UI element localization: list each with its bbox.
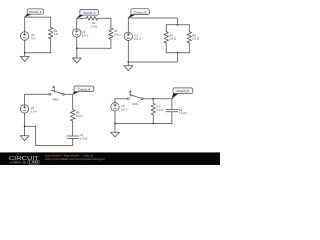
capacitor C2	[166, 109, 178, 111]
wire circuit3 top rail	[166, 24, 189, 26]
node circuit3 ground junction	[127, 61, 129, 63]
svg-text:http://circuitlab.com/cmshqk2m: http://circuitlab.com/cmshqk2m2egca	[45, 157, 105, 161]
svg-text:3.0 Ω: 3.0 Ω	[114, 33, 121, 37]
wire circuit3 bottom	[128, 61, 177, 63]
wire circuit3 left upper	[127, 18, 129, 32]
wire circuit3 top	[128, 17, 177, 19]
label bubble Circuit_3	[128, 9, 149, 18]
svg-text:Circuit_1: Circuit_1	[29, 10, 41, 14]
node circuit5 R7 bottom junction	[152, 123, 154, 125]
wire circuit3 output down	[177, 53, 179, 62]
wire circuit5 cap down lower	[171, 112, 173, 124]
svg-text:5 V: 5 V	[31, 37, 35, 41]
wire circuit2 right upper	[110, 18, 112, 28]
svg-text:1.0 µF: 1.0 µF	[80, 137, 88, 141]
node circuit4 ground junction	[24, 125, 26, 127]
svg-text:5.0 V: 5.0 V	[31, 110, 38, 114]
svg-text:Circuit_3: Circuit_3	[134, 10, 146, 14]
node circuit3 output junction	[177, 52, 179, 54]
svg-text:5.0 V: 5.0 V	[121, 107, 128, 111]
wire circuit3 R5 upper stub	[188, 25, 190, 32]
wire circuit1 left lower	[24, 40, 26, 53]
voltage source V4	[20, 105, 28, 113]
wire circuit4 right lower	[72, 139, 74, 146]
resistor R4	[164, 32, 168, 44]
ground circuit3	[124, 62, 133, 71]
wire circuit4 left lower	[24, 113, 26, 126]
resistor R2	[86, 16, 98, 20]
wire circuit3 R4 lower stub	[165, 43, 167, 53]
wire circuit4 bottom left vertical	[35, 126, 37, 145]
svg-text:SW1: SW1	[53, 98, 59, 102]
wire circuit3 R5 lower stub	[188, 43, 190, 53]
footer bar	[0, 152, 220, 165]
svg-text:2.0 Ω: 2.0 Ω	[90, 25, 97, 29]
wire circuit5 left lower	[114, 111, 116, 124]
wire circuit3 feed down	[177, 18, 179, 25]
svg-text:1.0 µF: 1.0 µF	[179, 111, 187, 115]
wire circuit2 left upper	[76, 18, 78, 28]
resistor R6	[70, 110, 74, 122]
node circuit5 R7 top junction	[152, 98, 154, 100]
wire circuit1 right upper	[50, 17, 52, 27]
resistor R3	[109, 28, 113, 40]
svg-text:SW2: SW2	[132, 102, 138, 106]
wire circuit1 top	[25, 16, 51, 18]
ground circuit4	[20, 126, 29, 141]
voltage source V2	[73, 29, 81, 37]
wire circuit4 bottom	[36, 145, 73, 147]
wire circuit5 bottom	[115, 123, 172, 125]
wire circuit5 cap down upper	[171, 99, 173, 110]
wire circuit2 top right	[98, 17, 111, 19]
wire circuit2 top left	[77, 17, 86, 19]
svg-text:1 Ω: 1 Ω	[54, 32, 58, 36]
node circuit2 ground junction	[76, 47, 78, 49]
wire circuit4 right upper	[72, 94, 74, 109]
svg-text:Circuit_4: Circuit_4	[78, 87, 90, 91]
svg-text:5.0 V: 5.0 V	[82, 33, 89, 37]
wire circuit2 right lower	[110, 39, 112, 48]
wire circuit5 top mid	[143, 98, 172, 100]
svg-text:2.0 Ω: 2.0 Ω	[169, 37, 176, 41]
resistor R7	[151, 103, 155, 115]
wire circuit5 left upper	[114, 99, 116, 103]
svg-text:LAB: LAB	[29, 161, 40, 165]
wire circuit5 R7 upper stub	[152, 99, 154, 104]
label bubble Circuit_1	[24, 9, 43, 17]
node circuit1 ground junction	[24, 52, 26, 54]
resistor R5	[187, 32, 191, 44]
svg-text:5.0 Ω: 5.0 Ω	[76, 114, 83, 118]
wire circuit4 top left	[25, 93, 50, 95]
wire circuit1 right lower	[50, 39, 52, 53]
node circuit3 feed junction	[177, 24, 179, 26]
svg-text:2.0 Ω: 2.0 Ω	[192, 37, 199, 41]
capacitor C1	[67, 136, 79, 139]
node circuit5 ground junction	[114, 123, 116, 125]
wire circuit3 R4 upper stub	[165, 25, 167, 32]
wire circuit1 left upper	[24, 17, 26, 32]
switch SW2	[127, 91, 143, 100]
voltage source V5	[111, 103, 119, 111]
wire circuit5 top left	[115, 98, 127, 100]
wire circuit1 bottom	[25, 52, 51, 54]
ground circuit1	[20, 53, 29, 62]
svg-text:5.0 Ω: 5.0 Ω	[156, 108, 163, 112]
wire circuit4 right mid	[72, 121, 74, 136]
label bubble Circuit_4	[73, 86, 94, 95]
wire circuit4 top right	[64, 93, 73, 95]
svg-text:Circuit_2: Circuit_2	[83, 11, 95, 15]
wire circuit4 bottom left horizontal	[25, 125, 36, 127]
svg-text:5.0 V: 5.0 V	[134, 37, 141, 41]
wire circuit2 left lower	[76, 37, 78, 48]
voltage source V3	[124, 32, 132, 40]
wire circuit5 R7 lower stub	[152, 115, 154, 124]
ground circuit5	[111, 124, 120, 137]
label bubble Circuit_2	[77, 9, 99, 18]
resistor R1	[49, 27, 53, 39]
wire circuit2 bottom	[77, 47, 111, 49]
ground circuit2	[72, 48, 81, 63]
svg-text:Circuit_5: Circuit_5	[177, 89, 189, 93]
label bubble Circuit_5	[172, 88, 193, 99]
wire circuit4 left upper	[24, 94, 26, 104]
voltage source V1	[21, 32, 29, 40]
switch SW1	[49, 86, 64, 95]
wire circuit3 bottom rail	[166, 52, 189, 54]
wire circuit3 left lower	[127, 41, 129, 62]
CircuitLab logo	[9, 156, 40, 164]
